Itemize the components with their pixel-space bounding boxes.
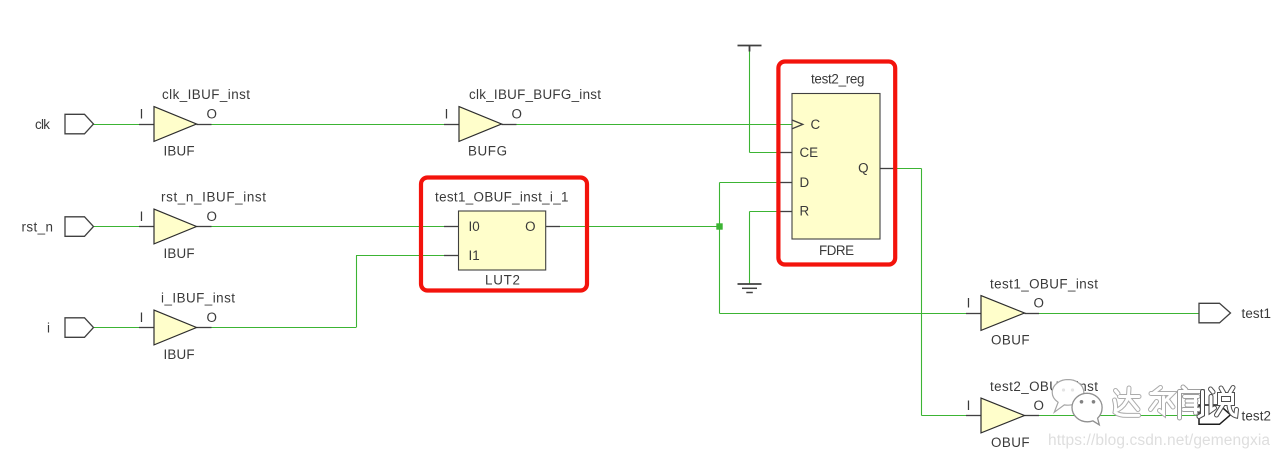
svg-text:R: R — [800, 204, 810, 219]
svg-text:IBUF: IBUF — [164, 144, 195, 159]
svg-text:OBUF: OBUF — [991, 435, 1030, 450]
svg-text:Q: Q — [858, 161, 868, 176]
svg-text:I: I — [140, 310, 144, 325]
svg-text:I: I — [445, 107, 449, 122]
svg-text:rst_n_IBUF_inst: rst_n_IBUF_inst — [161, 189, 266, 204]
svg-text:I: I — [967, 398, 971, 413]
svg-text:O: O — [525, 219, 535, 234]
svg-text:O: O — [1034, 296, 1044, 311]
svg-text:CE: CE — [800, 145, 819, 160]
svg-text:I: I — [967, 296, 971, 311]
svg-text:I: I — [140, 107, 144, 122]
svg-text:rst_n: rst_n — [22, 219, 54, 234]
svg-text:I: I — [140, 209, 144, 224]
svg-text:LUT2: LUT2 — [485, 272, 520, 287]
svg-text:C: C — [811, 117, 821, 132]
svg-text:test2: test2 — [1242, 408, 1272, 423]
svg-text:clk_IBUF_BUFG_inst: clk_IBUF_BUFG_inst — [469, 87, 601, 102]
svg-text:IBUF: IBUF — [164, 246, 195, 261]
svg-text:I1: I1 — [469, 248, 480, 263]
svg-text:test1_OBUF_inst: test1_OBUF_inst — [990, 276, 1098, 291]
svg-text:O: O — [1034, 398, 1044, 413]
svg-text:test1_OBUF_inst_i_1: test1_OBUF_inst_i_1 — [435, 190, 569, 205]
svg-text:FDRE: FDRE — [819, 243, 854, 258]
svg-text:O: O — [512, 107, 522, 122]
svg-text:O: O — [207, 310, 217, 325]
svg-text:i_IBUF_inst: i_IBUF_inst — [161, 290, 235, 305]
svg-text:IBUF: IBUF — [164, 347, 195, 362]
svg-text:O: O — [207, 209, 217, 224]
svg-text:I0: I0 — [469, 219, 480, 234]
svg-text:https://blog.csdn.net/gemengxi: https://blog.csdn.net/gemengxia — [1048, 432, 1270, 449]
svg-text:test2_reg: test2_reg — [811, 71, 865, 86]
svg-text:clk: clk — [35, 117, 50, 132]
svg-text:clk_IBUF_inst: clk_IBUF_inst — [162, 87, 250, 102]
svg-text:test1: test1 — [1242, 306, 1272, 321]
svg-text:i: i — [47, 320, 50, 335]
svg-text:O: O — [207, 107, 217, 122]
svg-text:D: D — [800, 175, 810, 190]
svg-text:BUFG: BUFG — [468, 144, 507, 159]
svg-text:OBUF: OBUF — [991, 333, 1030, 348]
